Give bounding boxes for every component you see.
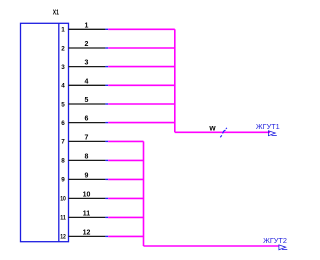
svg-text:ЖГУТ1: ЖГУТ1 <box>256 122 280 131</box>
wire 12 black segment <box>69 235 106 237</box>
wire 1 joint <box>105 28 108 30</box>
svg-text:9: 9 <box>85 172 89 179</box>
wire 9 joint <box>105 178 108 180</box>
svg-text:12: 12 <box>60 234 66 241</box>
harness 1 arrow <box>268 131 276 136</box>
svg-text:5: 5 <box>61 101 65 108</box>
svg-text:11: 11 <box>83 210 91 217</box>
connector X1 body <box>21 23 69 241</box>
svg-text:2: 2 <box>85 41 89 48</box>
svg-text:12: 12 <box>83 229 91 236</box>
wire 8 black segment <box>69 159 106 161</box>
svg-text:4: 4 <box>61 83 65 90</box>
wire 11 magenta segment <box>108 216 143 218</box>
svg-text:11: 11 <box>60 215 66 222</box>
svg-text:6: 6 <box>61 120 65 127</box>
svg-text:1: 1 <box>61 27 65 34</box>
wire 7 magenta segment <box>108 140 143 142</box>
svg-text:X1: X1 <box>53 10 59 17</box>
wire 8 magenta segment <box>108 159 143 161</box>
svg-text:4: 4 <box>85 78 89 85</box>
wire 10 joint <box>105 197 108 199</box>
wire 3 black segment <box>69 66 106 68</box>
wire 7 joint <box>105 140 108 142</box>
wire 5 joint <box>105 103 108 105</box>
wire 6 magenta segment <box>108 122 175 124</box>
svg-text:1: 1 <box>85 22 89 29</box>
svg-text:7: 7 <box>61 139 65 146</box>
wire 2 magenta segment <box>108 47 175 49</box>
wire 8 joint <box>105 159 108 161</box>
wire 9 black segment <box>69 178 106 180</box>
svg-text:6: 6 <box>85 116 89 123</box>
svg-text:10: 10 <box>60 196 66 203</box>
wire 5 magenta segment <box>108 103 175 105</box>
svg-text:5: 5 <box>85 97 89 104</box>
wire 4 black segment <box>69 84 106 86</box>
svg-text:8: 8 <box>61 158 65 165</box>
wire 1 black segment <box>69 28 106 30</box>
wire 3 joint <box>105 66 108 68</box>
wire 9 magenta segment <box>108 178 143 180</box>
svg-text:8: 8 <box>85 153 89 160</box>
wire 12 magenta segment <box>108 235 143 237</box>
svg-text:ЖГУТ2: ЖГУТ2 <box>263 236 287 245</box>
wire 6 joint <box>105 122 108 124</box>
wire 2 black segment <box>69 47 106 49</box>
svg-text:7: 7 <box>85 134 89 141</box>
wire 12 joint <box>105 235 108 237</box>
harness 2 vertical bus <box>143 141 145 246</box>
wire 7 black segment <box>69 140 106 142</box>
wire 10 magenta segment <box>108 197 143 199</box>
harness 1 horizontal bus <box>175 131 270 133</box>
wire 4 magenta segment <box>108 84 175 86</box>
wire 11 joint <box>105 216 108 218</box>
svg-text:w: w <box>208 124 216 133</box>
harness 2 horizontal bus <box>144 245 279 247</box>
svg-text:10: 10 <box>83 191 91 198</box>
wire 6 black segment <box>69 122 106 124</box>
harness 1 vertical bus <box>174 29 176 132</box>
wire 5 black segment <box>69 103 106 105</box>
bundle mark <box>220 128 227 138</box>
wire 1 magenta segment <box>108 28 175 30</box>
svg-text:9: 9 <box>61 177 65 184</box>
svg-text:3: 3 <box>85 60 89 67</box>
wire 4 joint <box>105 84 108 86</box>
svg-text:2: 2 <box>61 45 65 52</box>
svg-text:3: 3 <box>61 64 65 71</box>
wire 10 black segment <box>69 197 106 199</box>
wire 3 magenta segment <box>108 66 175 68</box>
harness 2 arrow <box>279 245 287 250</box>
wire 11 black segment <box>69 216 106 218</box>
wire 2 joint <box>105 47 108 49</box>
